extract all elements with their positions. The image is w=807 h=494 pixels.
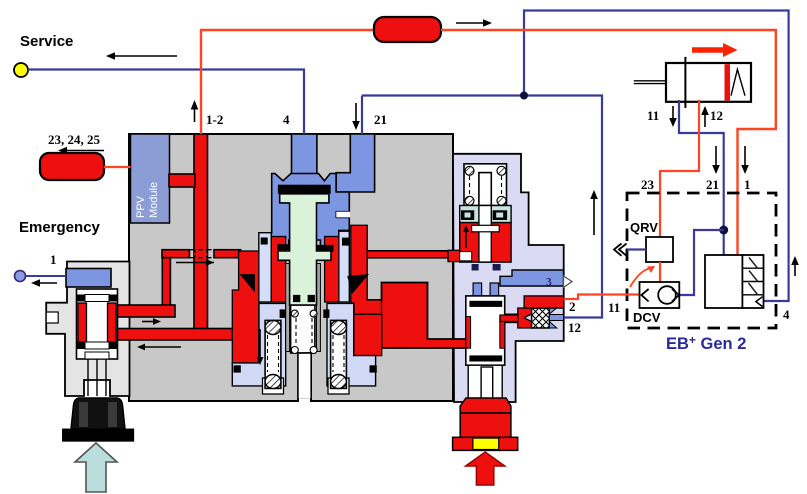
red channel to emergency piston: [113, 305, 175, 317]
black wedge seal left: [240, 274, 255, 292]
pale blue strip right: [339, 231, 350, 302]
cornflower pins: [473, 283, 482, 296]
label EB+ Gen 2: [666, 333, 746, 353]
wire blue top long: [524, 11, 789, 302]
gray seat rod left: [286, 264, 290, 352]
DCV box: [633, 282, 679, 325]
label 23 ebs: [641, 177, 655, 192]
red outer right chamber: [351, 225, 382, 322]
flow arrow left 23-25: [58, 147, 104, 155]
svg-text:Emergency: Emergency: [19, 219, 101, 236]
svg-text:12: 12: [568, 320, 581, 335]
label 21: [374, 112, 387, 127]
red ring: [78, 303, 87, 342]
flow arrow down in lavender: [257, 329, 264, 365]
filter crosshatch: [500, 308, 564, 328]
roller spring right: [328, 320, 349, 394]
svg-text:PPV: PPV: [135, 195, 147, 218]
label 4 right: [783, 307, 790, 322]
red channel upper horizontal: [162, 250, 241, 258]
flow arrow right upper channel: [176, 259, 214, 266]
relay bottom red plug: [453, 398, 518, 450]
label 1 ebs: [744, 177, 751, 192]
svg-text:EB+ Gen 2: EB+ Gen 2: [666, 333, 746, 353]
piston mid: [466, 296, 505, 365]
flow arrow down 21: [352, 103, 360, 130]
svg-text:3: 3: [546, 277, 552, 289]
label Emergency: [19, 219, 101, 236]
service port: [14, 33, 73, 77]
svg-text:12: 12: [710, 108, 723, 123]
center piston white: [291, 305, 318, 403]
flow arrow left emergency: [31, 279, 57, 287]
black seal bands center: [277, 244, 333, 252]
flow arrow up far right: [791, 256, 799, 276]
svg-text:1: 1: [744, 177, 751, 192]
svg-text:Module: Module: [148, 182, 160, 218]
svg-text:4: 4: [283, 112, 290, 127]
svg-text:4: 4: [783, 307, 790, 322]
svg-text:11: 11: [647, 108, 659, 123]
red chamber above filter: [524, 296, 564, 308]
port 4 column: [292, 134, 317, 175]
cyan seal band: [460, 206, 511, 223]
flow arrow right mid: [142, 318, 161, 325]
svg-text:11: 11: [608, 300, 620, 315]
brake cylinder: [634, 57, 751, 108]
label 23 24 25: [48, 132, 101, 147]
svg-text:23: 23: [641, 177, 655, 192]
junction dot: [520, 92, 528, 100]
white cylinder top: [464, 164, 507, 206]
EB+ dashed box: [627, 193, 776, 328]
label 1-2: [206, 112, 223, 127]
flow arrow down 1 line: [741, 146, 749, 174]
wire blue cylinder to 21: [679, 100, 724, 255]
wire orange QRV to DCV: [659, 262, 661, 295]
wire blue 21 down: [361, 96, 363, 135]
red channel drop left: [162, 258, 170, 306]
cyan up arrow: [75, 443, 117, 492]
red channel center to relay thin: [366, 250, 460, 261]
red curved arrow DCV: [630, 266, 655, 287]
roller spring left: [263, 320, 284, 394]
label 11: [608, 300, 620, 315]
red chamber: [460, 223, 511, 263]
flow arrow left bottom: [137, 344, 181, 351]
junction dot blue 21: [719, 226, 728, 235]
wire red top to cylinder spring side: [441, 30, 776, 255]
svg-text:2: 2: [569, 299, 576, 314]
flow arrow up beside line 602: [590, 190, 598, 235]
wire service blue: [28, 70, 304, 135]
valve body main block: [129, 134, 453, 401]
flow arrow down 21 line: [712, 146, 720, 174]
flow arrow right after muffler: [456, 19, 492, 27]
lavender lower chamber left: [232, 303, 285, 386]
wire blue DCV to junction: [679, 230, 723, 295]
PPV Module block: [131, 134, 170, 223]
blue port 3 channel: [500, 270, 572, 289]
label 12 cyl: [710, 108, 723, 123]
svg-text:21: 21: [374, 112, 387, 127]
green T stem: [278, 194, 331, 305]
red right lower: [354, 314, 382, 355]
red inner column right: [325, 237, 339, 303]
emergency housing left (light gray): [46, 262, 129, 397]
QRV box: [630, 220, 673, 262]
svg-text:21: 21: [706, 177, 719, 192]
center assembly: [292, 134, 375, 192]
flow arrow up 1-2: [191, 100, 199, 122]
exhaust block 23,24,25: [40, 153, 131, 180]
white inlet notch: [460, 252, 472, 261]
red inner column left: [271, 237, 285, 303]
flow arrow down 11: [669, 106, 677, 127]
red up arrow: [466, 452, 505, 485]
wire blue 21 to EBS: [362, 96, 602, 318]
label 2: [569, 299, 576, 314]
emergency port knob: [15, 252, 67, 282]
wire orange port2 to DCV: [564, 295, 661, 300]
red blob center-right: [367, 283, 466, 349]
flow arrow left above service: [106, 52, 177, 60]
relay housing right (lavender): [453, 154, 564, 402]
muffler top: [374, 17, 441, 42]
pale blue strip left: [259, 233, 272, 302]
black wedge seal right: [347, 274, 369, 294]
exhaust chevrons QRV: [614, 244, 646, 256]
svg-text:QRV: QRV: [630, 220, 658, 235]
wire orange cylinder 12 to QRV 23: [660, 100, 699, 237]
gray seat rod right: [317, 264, 321, 352]
svg-text:1: 1: [50, 252, 57, 267]
flow arrow up 12: [701, 106, 709, 127]
red channel vertical 1-2: [194, 134, 208, 334]
label 12: [568, 320, 581, 335]
svg-text:DCV: DCV: [633, 310, 661, 325]
label 4: [283, 112, 290, 127]
REV block: [705, 255, 764, 308]
red outer left chamber: [232, 251, 258, 363]
blue cap: [66, 269, 111, 288]
wire red 1-2 up: [201, 30, 374, 134]
svg-text:1-2: 1-2: [206, 112, 223, 127]
black mushroom plunger: [63, 398, 134, 441]
red channel bottom horizontal: [113, 329, 243, 341]
svg-text:Service: Service: [20, 33, 73, 50]
label 11 cyl: [647, 108, 659, 123]
svg-text:23, 24, 25: 23, 24, 25: [48, 132, 101, 147]
port 21 column with L: [336, 134, 375, 192]
label 21 ebs: [706, 177, 719, 192]
relay piston internals: [460, 164, 524, 402]
red channel from PPV to vertical: [169, 174, 195, 187]
emergency valve internals: [66, 269, 118, 397]
black cap: [278, 185, 331, 194]
lavender lower chamber right: [323, 303, 377, 386]
piston white: [77, 289, 118, 359]
red arrow above cylinder: [692, 43, 738, 57]
lower column: [468, 365, 502, 398]
valve bell cornflower: [271, 174, 350, 249]
